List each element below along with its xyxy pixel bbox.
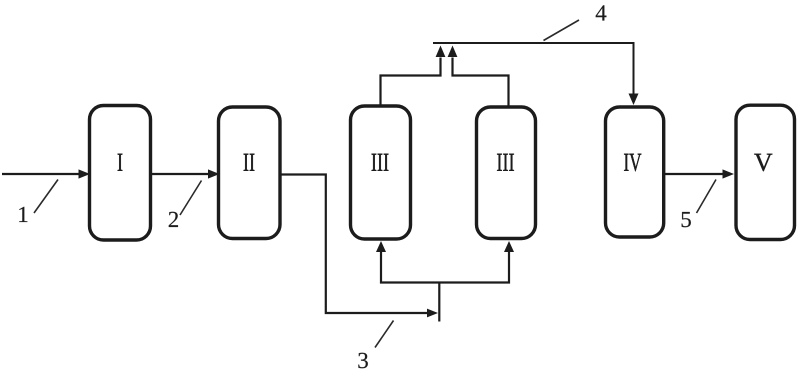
box V: [736, 105, 795, 239]
box III (first): [351, 106, 411, 239]
box IV: [606, 107, 664, 237]
wire: riser from first box III to overhead line: [381, 46, 446, 107]
wire: feed arrow into box I: [2, 169, 90, 178]
leader line 5: [697, 180, 717, 214]
wire: overhead line 4 to box IV: [433, 43, 639, 105]
box III (second): [477, 107, 536, 239]
label 5: [682, 212, 691, 227]
wire: riser from second box III to overhead line: [448, 46, 509, 108]
label 1: [19, 207, 27, 222]
leader line 2: [180, 181, 202, 216]
leader line 3: [375, 321, 394, 348]
box II: [219, 107, 281, 239]
wire: route from box II down and right (stream 3): [280, 175, 439, 322]
label 4: [596, 5, 607, 20]
leader line 4: [544, 20, 580, 41]
box I: [90, 106, 151, 241]
wire: arrow box I to box II: [151, 169, 220, 178]
label 3: [358, 353, 368, 368]
wire: distribution line feeding both III boxes: [376, 241, 514, 283]
leader line 1: [34, 180, 58, 214]
label 2: [169, 212, 178, 227]
wire: arrow box IV to box V: [664, 169, 735, 178]
